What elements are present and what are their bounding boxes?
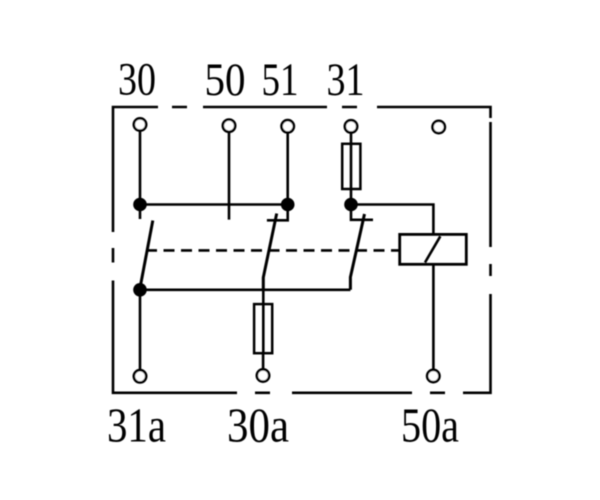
wire terminal 30 down to node A — [139, 132, 142, 205]
svg-text:51: 51 — [262, 54, 299, 106]
enclosure outline (dash-dot box) — [113, 107, 491, 393]
wire fuse F2 to terminal 30a — [262, 353, 265, 369]
terminal 30 — [134, 118, 146, 130]
wire terminal 51 down to node B — [286, 133, 289, 204]
wire bottom bus node D to lever S3 — [140, 288, 350, 291]
wire terminal 31 down to fuse F1 — [350, 133, 353, 145]
wire top bus node A to node B — [140, 203, 288, 206]
switch lever S1 (30 / 31a) — [140, 221, 153, 288]
svg-text:31a: 31a — [107, 398, 166, 453]
svg-text:31: 31 — [327, 54, 365, 106]
node D — [133, 283, 147, 297]
mechanical linkage (dashed) — [146, 249, 399, 252]
wire relay coil K1 to terminal 50a — [432, 264, 435, 370]
node C — [344, 198, 358, 212]
switch lever S2 (51 / 30a) — [263, 214, 276, 290]
terminal 50a — [427, 370, 439, 382]
fuse F1 (in line 31) — [342, 144, 360, 189]
terminal 31 — [345, 120, 357, 132]
wire node C to relay coil K1 — [351, 205, 433, 235]
unused terminal (top right) — [433, 121, 445, 133]
node A — [133, 198, 147, 212]
svg-text:30: 30 — [118, 54, 156, 106]
wire junction to fuse F2 — [262, 290, 265, 304]
svg-text:50a: 50a — [401, 398, 459, 453]
terminal 31a — [134, 370, 146, 382]
wire fixed contact stub below node A — [139, 205, 142, 220]
switch lever S3 (31) — [350, 214, 364, 290]
wire fuse F1 to node C — [350, 189, 353, 205]
wire terminal 50 down (fixed contact) — [228, 133, 231, 220]
node B — [281, 198, 295, 212]
fuse F2 (in line 30a) — [254, 304, 272, 353]
svg-text:30a: 30a — [227, 398, 289, 453]
terminal 30a — [257, 369, 269, 381]
wire node D down to terminal 31a — [139, 290, 142, 370]
terminal 51 — [282, 120, 294, 132]
wire fixed contact L below node B — [267, 205, 288, 221]
svg-text:50: 50 — [205, 54, 246, 106]
relay coil K1 — [400, 234, 467, 264]
terminal 50 — [223, 120, 235, 132]
wire fixed contact L below node C — [351, 205, 373, 220]
